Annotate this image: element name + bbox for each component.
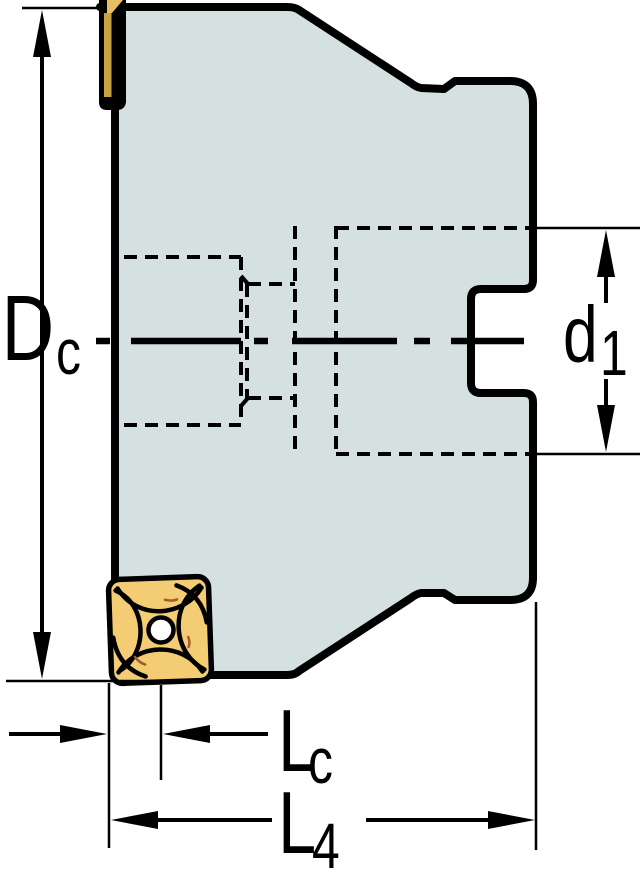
d1 top extension line (535, 227, 640, 230)
L4 right extension line (535, 602, 538, 850)
hidden bore d1 left vertical 2 (334, 226, 338, 455)
d1 arrow down (604, 379, 608, 410)
hidden bore: left rect right vertical (239, 257, 243, 425)
label d1 (563, 291, 628, 390)
Dc arrow down (33, 632, 51, 679)
hidden neck top (248, 282, 295, 286)
label Dc (2, 276, 81, 388)
L4 dimension line left part (155, 818, 272, 822)
hidden bore d1 left vertical 1 (293, 226, 297, 455)
svg-text:c: c (56, 317, 81, 388)
d1 arrow up (604, 272, 608, 303)
hidden bore d1 top (336, 226, 531, 230)
indexable insert bottom-left (108, 576, 212, 683)
hidden neck bottom (248, 396, 295, 400)
Dc bottom extension line (baseline) (6, 680, 206, 683)
Lc extension line left (108, 683, 111, 848)
Dc dimension line (40, 50, 44, 640)
label L4 (278, 774, 340, 881)
svg-text:L: L (278, 774, 316, 872)
hidden bore d1 bottom (336, 452, 531, 456)
hidden neck left vertical (245, 284, 249, 398)
Dc arrow up (33, 10, 51, 57)
d1 bottom extension line (535, 453, 640, 456)
Lc left arrow (9, 732, 66, 736)
svg-text:d: d (563, 291, 598, 380)
center line (96, 338, 524, 345)
L4 dimension line right part (366, 818, 491, 822)
milling cutter body (100, 7, 533, 675)
hidden bore chamfer bottom (241, 398, 248, 406)
edge-on insert top-left (99, 0, 126, 110)
hidden bore chamfer top (241, 276, 248, 284)
svg-text:D: D (2, 276, 54, 380)
Lc extension line right (160, 685, 163, 780)
label Lc (278, 692, 333, 798)
Lc right arrow (208, 732, 268, 736)
hidden bore: small left rect bottom (124, 423, 241, 427)
svg-text:1: 1 (600, 318, 628, 389)
svg-text:4: 4 (312, 811, 340, 881)
Dc top extension line (22, 7, 100, 10)
hidden bore: small left rect top (124, 255, 241, 259)
